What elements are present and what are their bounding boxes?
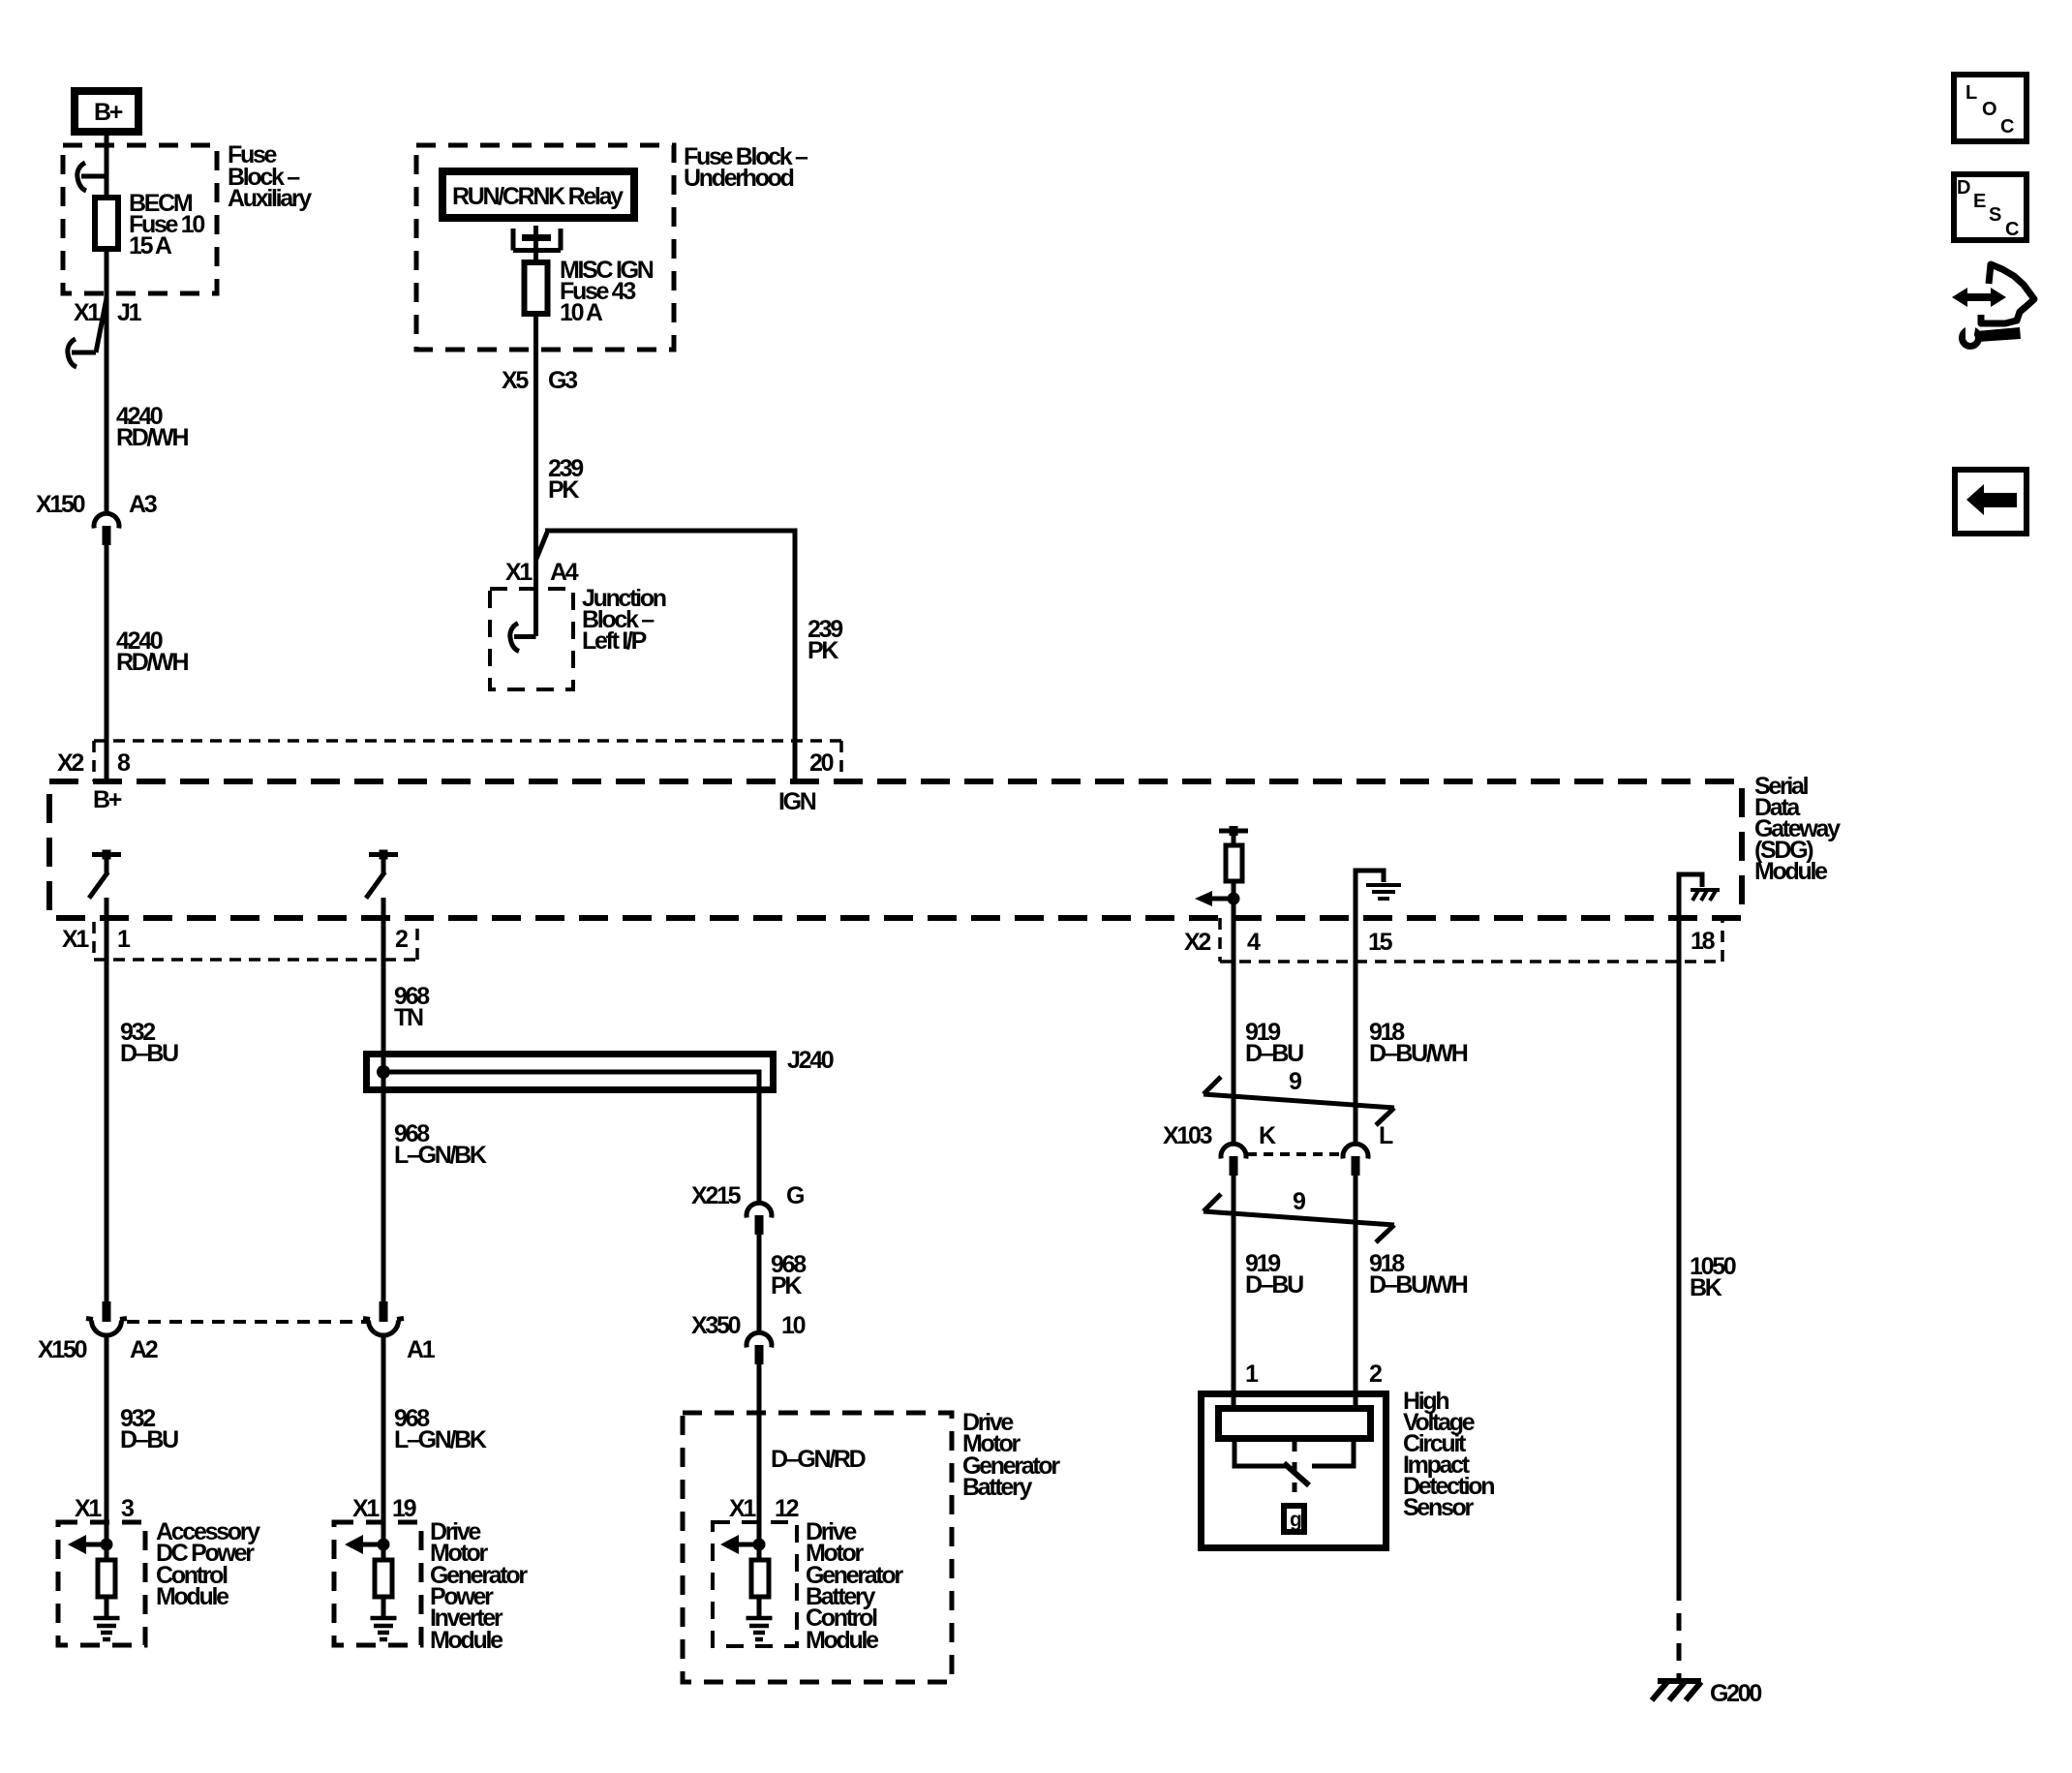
svg-text:L–GN/BK: L–GN/BK <box>394 1142 487 1169</box>
wire SDG pin 15 down <box>1354 918 1358 1143</box>
svg-text:Module: Module <box>430 1627 503 1654</box>
svg-text:X5: X5 <box>502 367 529 394</box>
terminal hook in junction block <box>510 624 536 652</box>
wire L down <box>1354 1175 1358 1409</box>
drive motor generator battery box <box>683 1409 1060 1682</box>
resistor in inverter module <box>375 1560 392 1597</box>
svg-text:Module: Module <box>156 1583 229 1610</box>
svg-text:G200: G200 <box>1710 1680 1761 1707</box>
ground in battery module <box>747 1618 773 1639</box>
svg-text:X2: X2 <box>1184 929 1210 956</box>
RUN/CRNK relay K <box>442 171 634 218</box>
svg-text:18: 18 <box>1691 928 1716 955</box>
splice branch to IGN pin 20 <box>536 531 796 781</box>
relay output terminal bracket <box>513 226 561 251</box>
ground in inverter module <box>371 1618 397 1639</box>
resistor in accessory module <box>98 1560 115 1597</box>
svg-text:10: 10 <box>781 1312 806 1339</box>
svg-text:PK: PK <box>771 1272 802 1299</box>
sensor ground g box <box>1284 1506 1304 1532</box>
svg-text:3: 3 <box>121 1495 134 1522</box>
svg-text:15: 15 <box>1368 929 1393 956</box>
back arrow icon box <box>1955 470 2026 534</box>
wire A3 to SDG pin 8 <box>105 544 109 781</box>
wire SDG pin 18 down 1050 BK <box>1677 874 1682 1601</box>
svg-text:Left I/P: Left I/P <box>582 627 647 655</box>
svg-text:TN: TN <box>394 1004 423 1031</box>
wire SDG pin1 lower contact <box>105 898 109 1301</box>
connector X5 G3 labels <box>502 367 577 394</box>
svg-text:X1: X1 <box>62 926 89 953</box>
connector row X1 pins 1 2 <box>62 922 417 960</box>
battery control module inner box <box>713 1518 903 1654</box>
svg-text:15 A: 15 A <box>129 232 172 260</box>
wire resistor to ground inverter <box>381 1335 386 1618</box>
splice pack J240 <box>367 1047 834 1201</box>
svg-text:O: O <box>1982 99 1997 120</box>
chassis ground SDG pin 18 <box>1679 874 1720 918</box>
svg-text:PK: PK <box>548 476 579 504</box>
wire label 918 D-BU/WH lower <box>1369 1250 1468 1299</box>
signal arrow in battery module <box>720 1535 766 1554</box>
svg-text:E: E <box>1973 191 1986 212</box>
svg-text:B+: B+ <box>94 99 123 126</box>
svg-text:J240: J240 <box>787 1047 834 1074</box>
wire label 968 PK <box>771 1251 807 1299</box>
svg-text:RUN/CRNK Relay: RUN/CRNK Relay <box>452 183 624 210</box>
svg-text:X1: X1 <box>505 559 533 586</box>
wire label 932 D-BU upper <box>120 1019 178 1067</box>
svg-text:Auxiliary: Auxiliary <box>228 185 312 212</box>
svg-text:X2: X2 <box>57 749 83 777</box>
resistor in battery module <box>751 1560 769 1597</box>
connector X215 G <box>691 1182 804 1235</box>
connector X1 A4 labels <box>505 559 579 586</box>
wire label 1050 BK <box>1690 1253 1736 1301</box>
svg-text:L–GN/BK: L–GN/BK <box>394 1426 487 1453</box>
wire label 239 PK left <box>548 455 583 504</box>
dashed wire end to G200 <box>1677 1613 1682 1682</box>
svg-text:X1: X1 <box>75 1495 102 1522</box>
svg-text:D–BU/WH: D–BU/WH <box>1369 1040 1468 1067</box>
signal arrow in accessory module <box>68 1535 113 1554</box>
ground in accessory module <box>94 1618 120 1639</box>
svg-text:2: 2 <box>395 926 408 953</box>
svg-text:X1: X1 <box>74 299 101 326</box>
wire SDG pin2 lower contact to A1 <box>381 898 386 1301</box>
wire resistor to ground battery <box>757 1363 762 1618</box>
svg-text:9: 9 <box>1289 1068 1301 1095</box>
wire K down <box>1232 1175 1236 1409</box>
svg-text:J1: J1 <box>117 299 142 326</box>
connector X1 pin 19 <box>352 1495 416 1522</box>
svg-text:C: C <box>2000 116 2014 138</box>
svg-text:RD/WH: RD/WH <box>116 424 188 451</box>
svg-text:A1: A1 <box>407 1336 436 1363</box>
svg-text:X215: X215 <box>691 1182 742 1209</box>
svg-text:K: K <box>1259 1122 1276 1149</box>
svg-text:Underhood: Underhood <box>684 165 794 192</box>
junction block left I/P box <box>490 585 666 689</box>
sensor switch slash <box>1284 1463 1309 1485</box>
svg-text:X1: X1 <box>729 1495 756 1522</box>
svg-text:20: 20 <box>809 749 834 777</box>
svg-text:BK: BK <box>1690 1274 1722 1301</box>
dashed connector tie A2 to A1 <box>127 1320 368 1324</box>
wire label 919 D-BU lower <box>1245 1250 1303 1299</box>
wire resistor to ground <box>105 1335 109 1618</box>
svg-text:10 A: 10 A <box>560 299 603 326</box>
svg-text:A4: A4 <box>550 559 579 586</box>
drive motor generator power inverter module box <box>334 1518 528 1654</box>
twisted pair marker upper <box>1204 1068 1394 1125</box>
svg-text:Module: Module <box>1754 858 1828 885</box>
svg-text:D–GN/RD: D–GN/RD <box>771 1446 866 1473</box>
accessory DC power control module box <box>58 1518 260 1645</box>
connector row X2 pin 8 / pin 20 <box>57 741 841 781</box>
svg-text:G: G <box>786 1182 804 1209</box>
connector X150 A2 <box>38 1301 158 1363</box>
svg-text:g: g <box>1290 1509 1302 1531</box>
wire B+ to fuse <box>105 136 109 197</box>
LOC icon box <box>1954 75 2026 141</box>
connector X1 pin 3 <box>75 1495 134 1522</box>
svg-text:D–BU: D–BU <box>1245 1271 1303 1299</box>
svg-text:L: L <box>1965 82 1977 104</box>
fuse F10 BECM 15A <box>95 190 204 260</box>
svg-text:Battery: Battery <box>962 1474 1032 1501</box>
wire label 968 L-GN/BK upper <box>394 1120 487 1169</box>
switch contact pin 1 inside SDG <box>89 850 121 899</box>
wire label 968 TN upper <box>394 983 430 1031</box>
connector X1 pin 12 <box>729 1495 799 1522</box>
svg-text:9: 9 <box>1293 1188 1305 1215</box>
svg-text:X1: X1 <box>352 1495 380 1522</box>
svg-text:X150: X150 <box>38 1336 87 1363</box>
svg-text:IGN: IGN <box>778 788 816 815</box>
twisted pair marker lower <box>1204 1188 1394 1242</box>
svg-text:X103: X103 <box>1163 1122 1212 1149</box>
svg-text:D: D <box>1957 177 1970 199</box>
svg-text:PK: PK <box>807 637 838 664</box>
dashed connector tie K to L <box>1247 1152 1342 1156</box>
connector row X2 pins 4 15 18 <box>1184 918 1722 962</box>
wire relay to fuse 43 <box>533 241 538 263</box>
svg-text:Sensor: Sensor <box>1403 1494 1475 1521</box>
wire X215 to X350 <box>757 1234 762 1330</box>
svg-text:A3: A3 <box>129 491 157 518</box>
high voltage impact detection sensor box <box>1202 1388 1495 1548</box>
svg-text:B+: B+ <box>93 786 122 813</box>
connector X103 K <box>1163 1122 1276 1176</box>
SDG module dashed box <box>49 773 1841 918</box>
wire SDG pin 4 down <box>1232 899 1236 1143</box>
fuse F43 MISC IGN 10A <box>525 257 654 326</box>
svg-text:S: S <box>1989 204 2001 226</box>
svg-text:Module: Module <box>806 1627 879 1654</box>
svg-text:D–BU: D–BU <box>120 1040 178 1067</box>
wire label 919 D-BU upper <box>1245 1019 1303 1067</box>
switch contact pin 2 inside SDG <box>366 850 398 899</box>
sensor internal dashed link <box>1293 1442 1297 1503</box>
ground symbol SDG pin 15 <box>1356 871 1401 918</box>
connector X103 L <box>1343 1122 1393 1176</box>
fuse block underhood box <box>416 143 808 350</box>
svg-text:RD/WH: RD/WH <box>116 649 188 676</box>
connector X1 J1 terminal <box>68 298 142 367</box>
svg-text:X150: X150 <box>36 491 85 518</box>
resistor network SDG pin 4 <box>1195 826 1248 906</box>
signal arrow in inverter module <box>345 1535 390 1554</box>
svg-text:D–BU: D–BU <box>120 1426 178 1453</box>
swap-parts sketch icon <box>1952 264 2034 350</box>
connector X150 A1 <box>363 1301 436 1363</box>
wire label 932 D-BU lower <box>120 1405 178 1453</box>
DESC icon box <box>1954 174 2026 240</box>
wire label 918 D-BU/WH upper <box>1369 1019 1468 1067</box>
svg-text:2: 2 <box>1369 1360 1382 1388</box>
terminal hook in fuse block <box>77 163 107 191</box>
sensor contact brackets <box>1234 1440 1354 1466</box>
svg-text:19: 19 <box>392 1495 416 1522</box>
wire label 4240 RD/WH upper <box>116 403 188 451</box>
svg-text:L: L <box>1379 1122 1393 1149</box>
svg-text:12: 12 <box>775 1495 799 1522</box>
wire label 968 L-GN/BK lower <box>394 1405 487 1453</box>
svg-text:X350: X350 <box>691 1312 741 1339</box>
connector X350 pin 10 <box>691 1312 806 1364</box>
svg-text:C: C <box>2005 219 2019 240</box>
wire fuse to X150 A3 <box>105 249 109 511</box>
power feed B+ <box>75 91 138 132</box>
fuse block auxiliary box <box>63 141 312 293</box>
wire label 4240 RD/WH lower <box>116 627 188 676</box>
svg-text:A2: A2 <box>130 1336 158 1363</box>
svg-text:D–BU: D–BU <box>1245 1040 1303 1067</box>
connector X150 A3 <box>36 491 157 545</box>
svg-text:D–BU/WH: D–BU/WH <box>1369 1271 1468 1299</box>
svg-text:G3: G3 <box>548 367 577 394</box>
sensor element bar <box>1219 1409 1371 1439</box>
ground G200 <box>1652 1680 1761 1707</box>
wire fuse43 down <box>533 314 538 636</box>
wire label 239 PK right <box>807 616 842 664</box>
